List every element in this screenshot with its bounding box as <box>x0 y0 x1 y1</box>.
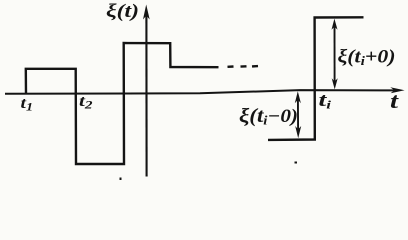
svg-text:t: t <box>390 88 399 113</box>
svg-text:ξ(ti−0): ξ(ti−0) <box>239 105 298 128</box>
svg-text:ξ(ti+0): ξ(ti+0) <box>338 48 396 69</box>
svg-text:ξ(t): ξ(t) <box>106 1 139 22</box>
